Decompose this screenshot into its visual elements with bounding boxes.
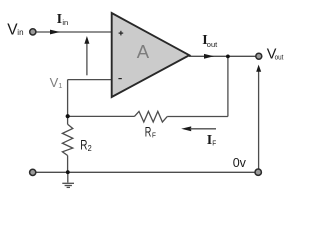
svg-text:0v: 0v [233,156,247,170]
svg-text:2: 2 [88,144,93,153]
svg-text:in: in [17,28,23,37]
svg-text:1: 1 [58,81,62,90]
svg-text:out: out [275,52,285,61]
svg-text:in: in [62,18,68,27]
svg-text:F: F [152,132,156,139]
svg-text:F: F [212,140,216,147]
svg-text:I: I [57,12,62,27]
svg-text:R: R [145,123,152,139]
svg-text:R: R [80,137,87,153]
svg-text:A: A [137,41,150,62]
svg-text:out: out [207,40,218,49]
